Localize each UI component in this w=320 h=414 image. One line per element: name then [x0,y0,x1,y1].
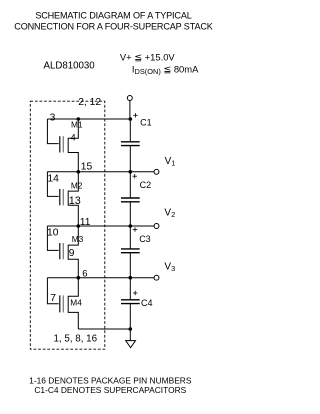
svg-text:13: 13 [69,195,81,207]
svg-text:C4: C4 [141,298,153,308]
svg-text:C2: C2 [140,180,152,190]
svg-text:M3: M3 [72,234,84,244]
svg-text:2, 12: 2, 12 [78,97,101,108]
svg-text:C1: C1 [140,117,152,127]
svg-text:ALD810030: ALD810030 [44,60,96,71]
svg-text:6: 6 [82,268,87,279]
svg-text:M4: M4 [70,297,82,307]
svg-text:IDS(ON) ≦ 80mA: IDS(ON) ≦ 80mA [132,64,199,76]
svg-text:M1: M1 [71,119,83,129]
svg-text:C1-C4 DENOTES SUPERCAPACITORS: C1-C4 DENOTES SUPERCAPACITORS [34,385,186,395]
svg-text:4: 4 [71,133,76,143]
svg-text:10: 10 [47,228,59,239]
svg-text:CONNECTION FOR A FOUR-SUPERCAP: CONNECTION FOR A FOUR-SUPERCAP STACK [14,21,212,31]
svg-text:C3: C3 [139,234,151,244]
svg-text:V3: V3 [164,262,175,273]
svg-text:SCHEMATIC DIAGRAM OF A TYPICAL: SCHEMATIC DIAGRAM OF A TYPICAL [35,10,191,20]
svg-text:11: 11 [80,217,91,228]
svg-text:1, 5, 8, 16: 1, 5, 8, 16 [54,333,98,344]
svg-text:V1: V1 [165,156,176,167]
svg-text:14: 14 [47,173,59,184]
svg-text:15: 15 [81,162,93,173]
svg-text:V+ ≦ +15.0V: V+ ≦ +15.0V [120,52,176,63]
svg-text:V2: V2 [164,207,175,218]
svg-text:9: 9 [69,248,75,259]
svg-text:3: 3 [50,113,56,124]
svg-text:M2: M2 [71,181,83,191]
svg-text:7: 7 [50,293,56,304]
